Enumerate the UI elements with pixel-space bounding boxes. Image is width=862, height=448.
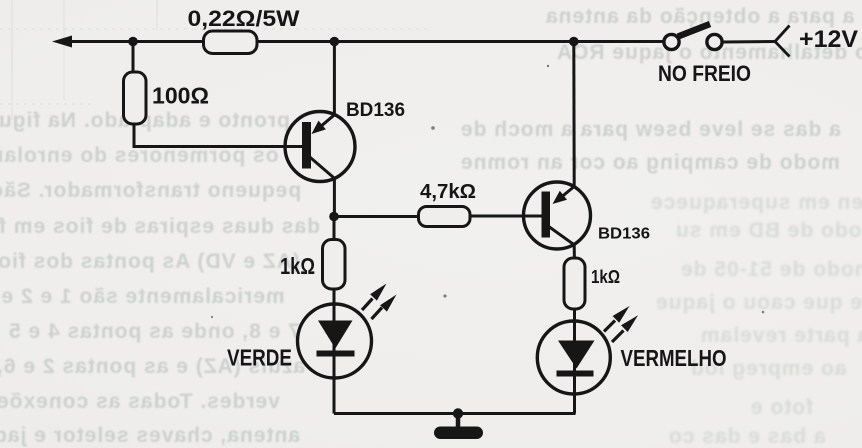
scan specks [211,65,764,318]
svg-text:BD136: BD136 [346,99,405,121]
transistor Q1 BD136 [285,112,355,182]
svg-text:1kΩ: 1kΩ [591,267,620,287]
arrow to supply line (left) [52,36,72,48]
connector +12V (open male symbol) [775,26,790,57]
LED D1 light arrow 1 [362,284,387,311]
wire node D down to R4 [333,217,336,242]
wire node C down to Q2 emitter [572,42,575,187]
LED D2 VERMELHO [537,321,610,394]
LED D2 light arrow 1 [604,306,630,332]
LED D1 VERDE [298,304,372,378]
wire R2 bottom to Q1 base [134,124,303,147]
ground node junction [453,408,463,418]
resistor R2 100 ohm [124,72,147,124]
ground stub [456,414,461,429]
LED D1 light arrow 2 [372,295,397,320]
switch S1 NO FREIO [664,24,722,50]
wire from node A down to R2 [132,42,135,75]
resistor R5 1k [564,258,585,309]
wire switch to +12V connector [723,40,776,44]
wire R5 to LED D2 [573,309,576,414]
svg-text:VERMELHO: VERMELHO [621,345,727,371]
faint bleed-through text, right column [545,5,854,29]
wire Q2 collector to R5 [573,245,576,261]
svg-text:VERDE: VERDE [227,345,292,371]
ground bar symbol [434,427,483,440]
svg-text:4,7kΩ: 4,7kΩ [420,180,476,203]
faint bleed-through text, left column [0,109,290,133]
wire R3 to Q2 base [470,215,542,218]
node B (junction above Q1) [330,37,340,47]
wire Q1 collector down to node D [333,178,336,217]
resistor R4 1k [323,240,346,290]
faint graph-paper grid remnants [0,0,430,120]
resistor R1 0,22ohm/5W [204,31,258,54]
wire bottom rail [334,412,576,415]
wire node D to R3 [334,215,419,218]
wire R4 to LED D1 [333,289,336,414]
node C (junction above Q2) [569,37,579,47]
svg-text:100Ω: 100Ω [152,83,209,109]
svg-text:0,22Ω/5W: 0,22Ω/5W [188,6,301,31]
svg-text:NO FREIO: NO FREIO [658,61,751,86]
transistor Q2 BD136 [524,182,591,249]
resistor R3 4,7k [419,207,471,227]
wire top rail middle [257,40,665,43]
svg-text:BD136: BD136 [598,226,650,243]
svg-text:1kΩ: 1kΩ [280,253,315,279]
node A (junction top-left) [128,37,138,47]
wire top rail [66,40,203,43]
svg-text:+12V: +12V [799,26,859,53]
LED D2 light arrow 2 [612,315,638,342]
node D (junction Q1 collector) [329,212,339,222]
wire node B down to Q1 emitter [333,42,336,115]
